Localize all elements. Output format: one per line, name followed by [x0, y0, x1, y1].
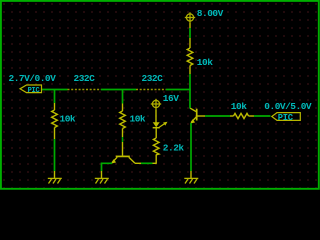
ground (middle, Q1 emitter) [95, 178, 109, 183]
wire: Q2 emitter to ground [190, 123, 192, 171]
wire: 8V to 10k (yellow then green) [189, 23, 191, 28]
resistor 10k (top right pull-up) [187, 43, 193, 74]
wire: middle resistor to transistor base (part green, part yellow) [122, 137, 124, 142]
wire: 10k down through junction to Q2 collector [189, 74, 191, 109]
svg-text:PIC: PIC [28, 87, 40, 95]
connector PIC (right output tag) [272, 113, 301, 123]
wire: Q2 base lead (yellow then green) [198, 115, 206, 117]
wire: main horizontal net y=89.5, solid part from left PIC to dash1 [42, 89, 68, 91]
ground (right, Q2 emitter) [184, 178, 198, 183]
wire: solid segment between dashes [101, 89, 136, 91]
ground (left) [48, 178, 62, 183]
svg-text:8.00V: 8.00V [197, 8, 224, 19]
border frame [1, 1, 319, 189]
wire: Q1 collector to 2.2k bottom [135, 162, 141, 164]
wire: resistor to right PIC tag [254, 115, 271, 117]
wire: diode to 2.2k [155, 128, 157, 138]
svg-text:10k: 10k [130, 114, 146, 125]
svg-text:232C: 232C [74, 73, 96, 84]
wire: Q1 emitter to ground (green) [102, 163, 113, 171]
connector PIC (left input tag) [20, 85, 42, 95]
power +16V symbol [151, 99, 161, 109]
wire: left 10k bottom to ground [54, 139, 56, 171]
svg-text:0.0V/5.0V: 0.0V/5.0V [264, 101, 312, 112]
svg-text:232C: 232C [142, 73, 164, 84]
svg-text:10k: 10k [60, 114, 76, 125]
resistor 10k (right, series to PIC) [230, 113, 254, 118]
wire: dashed net segment 1 (232C) [68, 89, 102, 91]
svg-text:16V: 16V [163, 93, 179, 104]
wire: left 10k top lead (green) [54, 90, 56, 104]
svg-text:PIC: PIC [278, 113, 294, 123]
power +8.00V symbol [185, 12, 195, 22]
wire: dashed net segment 2 (232C) [136, 89, 166, 91]
svg-text:10k: 10k [197, 57, 213, 68]
svg-text:10k: 10k [231, 101, 247, 112]
transistor Q1 (left, NPN, base up) [111, 156, 135, 163]
wire: solid segment to right vertical [166, 89, 191, 91]
resistor 10k (left pulldown) [52, 103, 58, 139]
diode D1 (cathode down) with arrow [153, 122, 168, 128]
wire: middle junction drop (green) [122, 90, 124, 104]
svg-text:2.2k: 2.2k [163, 143, 185, 154]
resistor 10k (middle, base feed) [120, 104, 126, 138]
grid dots [3, 3, 316, 188]
resistor 2.2k [153, 138, 159, 155]
wire: 16V to diode [155, 109, 157, 122]
svg-text:2.7V/0.0V: 2.7V/0.0V [9, 73, 57, 84]
transistor Q2 (right, NPN, base right) [190, 108, 197, 123]
